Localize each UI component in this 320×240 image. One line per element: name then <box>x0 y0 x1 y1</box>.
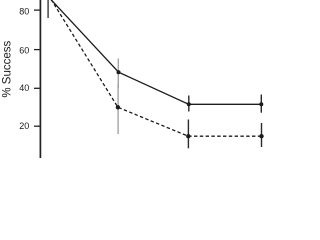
series1 marker point3 <box>187 102 191 106</box>
y-axis <box>39 0 41 158</box>
series1 marker point4 <box>259 102 263 106</box>
tick 20 <box>34 125 40 127</box>
series2 marker point4 <box>259 134 263 138</box>
series2 dashed line <box>48 0 262 136</box>
svg-text:% Success: % Success <box>1 41 13 98</box>
svg-text:60: 60 <box>19 46 29 56</box>
tick 80 <box>34 9 40 11</box>
error bar series2 point3 <box>187 120 189 149</box>
tick 60 <box>34 49 40 51</box>
error bar series1 point1 <box>47 0 49 18</box>
series1 solid line <box>50 0 262 104</box>
error bar series1 point3 <box>188 96 190 112</box>
svg-text:20: 20 <box>19 121 29 131</box>
error bar series2 point4 <box>261 123 263 147</box>
error bar series2 point2 (gray) <box>117 84 119 134</box>
tick 40 <box>34 87 40 89</box>
svg-text:80: 80 <box>19 7 29 17</box>
error bar series1 point2 (gray) <box>117 59 119 89</box>
error bar series1 point4 <box>260 95 262 113</box>
svg-text:40: 40 <box>19 83 29 93</box>
series1 marker point2 <box>117 70 121 74</box>
series2 marker point3 <box>186 134 190 138</box>
series2 marker point2 <box>116 105 120 109</box>
chart: % Success line graph <box>0 0 290 158</box>
